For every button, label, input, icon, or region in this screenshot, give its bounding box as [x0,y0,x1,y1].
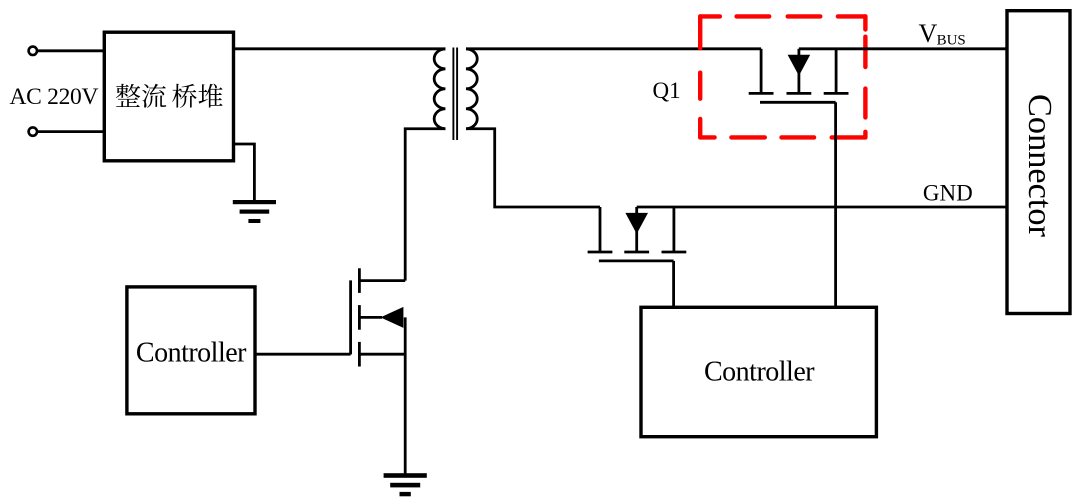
wire primary bottom to Q2 drain [405,129,445,281]
svg-text:Connector: Connector [1021,94,1059,237]
transistor Q1 output MOSFET [749,49,849,103]
Connector box [1007,11,1070,314]
wire rectifier output to transformer primary [234,47,446,50]
rectifier bridge box [104,32,233,161]
wire GND line to connector [637,206,1007,209]
transformer primary winding [434,49,445,129]
svg-text:Controller: Controller [136,337,247,368]
ground [384,473,427,496]
wire [37,49,105,52]
svg-text:Q1: Q1 [653,78,681,103]
AC input terminal top [29,47,37,55]
wire secondary top to Q1 drain [466,47,761,50]
wire Q3 gate to controller [672,261,675,307]
wire VBUS Q1 source to connector [799,47,1007,50]
transistor Q3 sync rectifier MOSFET [588,207,687,261]
wire Q1 gate to controller [834,102,837,307]
transformer core [452,48,454,141]
wire [37,130,105,133]
svg-text:GND: GND [923,181,973,206]
Controller box primary side [127,287,255,414]
red dashed highlight box [700,16,865,137]
svg-text:BUS: BUS [937,33,966,49]
svg-text:V: V [919,19,938,48]
wire controller to Q2 gate [255,353,351,356]
AC input terminal bottom [29,127,37,135]
wire secondary bottom to Q3 drain [466,129,600,207]
ground [233,200,276,223]
wire rectifier to ground [234,144,255,200]
svg-text:AC 220V: AC 220V [10,84,99,110]
transformer secondary winding [466,49,477,129]
transistor Q2 primary MOSFET [351,268,406,474]
label 整流桥堆 [116,84,223,108]
svg-text:Controller: Controller [704,357,815,388]
Controller box secondary side [641,307,876,436]
